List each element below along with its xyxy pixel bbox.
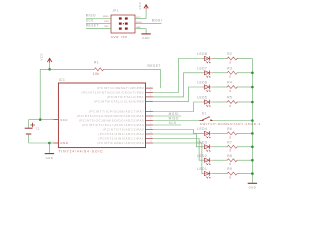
svg-text:LED3: LED3: [197, 140, 207, 144]
svg-text:MISO: MISO: [169, 117, 179, 121]
svg-text:(PCINT0/AREF/ADC0)PA0: (PCINT0/AREF/ADC0)PA0: [97, 141, 144, 145]
svg-text:R6: R6: [227, 127, 232, 131]
svg-text:LED8: LED8: [197, 52, 207, 56]
svg-text:VCC: VCC: [138, 1, 142, 9]
svg-text:R1: R1: [94, 60, 99, 64]
svg-text:R9: R9: [227, 167, 232, 171]
svg-text:MOSI: MOSI: [169, 112, 179, 116]
svg-text:MOSI: MOSI: [152, 19, 162, 23]
svg-text:VCC: VCC: [40, 52, 44, 60]
svg-text:0: 0: [229, 135, 231, 139]
svg-text:VCC: VCC: [60, 118, 68, 122]
svg-text:(PCINT11/RESET/dW)PB3: (PCINT11/RESET/dW)PB3: [97, 86, 144, 90]
svg-text:LED7: LED7: [197, 66, 207, 70]
svg-text:(PCINT10/INT0/OC0A/CKOUT)PB2: (PCINT10/INT0/OC0A/CKOUT)PB2: [81, 90, 144, 94]
svg-text:0: 0: [229, 89, 231, 93]
svg-text:IC1: IC1: [59, 78, 66, 82]
svg-text:R3: R3: [227, 66, 232, 70]
svg-text:LED5: LED5: [197, 96, 207, 100]
svg-text:SCK: SCK: [104, 21, 109, 23]
svg-text:RESET: RESET: [148, 64, 161, 68]
svg-text:0: 0: [229, 149, 231, 153]
svg-text:RST: RST: [104, 26, 109, 28]
svg-text:R2: R2: [227, 52, 232, 56]
svg-text:GND: GND: [46, 156, 54, 160]
svg-text:0: 0: [229, 176, 231, 180]
svg-text:10k: 10k: [93, 72, 100, 76]
svg-text:AVR ISP: AVR ISP: [111, 35, 128, 39]
svg-text:0: 0: [229, 75, 231, 79]
svg-text:SCK: SCK: [86, 19, 95, 23]
svg-text:(PCINT2/AIN1/ADC2)PA2: (PCINT2/AIN1/ADC2)PA2: [98, 132, 144, 136]
svg-text:(PCINT4/T1/SCL/USCK/ADC4)PA4: (PCINT4/T1/SCL/USCK/ADC4)PA4: [82, 123, 144, 127]
svg-text:R5: R5: [227, 96, 232, 100]
svg-text:C1: C1: [36, 127, 40, 131]
svg-text:MISO: MISO: [86, 14, 96, 18]
svg-text:(PCINT6/OC1A/SDA/MOSI/ADC6)PA6: (PCINT6/OC1A/SDA/MOSI/ADC6)PA6: [77, 114, 145, 118]
svg-text:(PCINT8/XTAL1/CLKIN)PB0: (PCINT8/XTAL1/CLKIN)PB0: [94, 99, 144, 103]
svg-text:GND: GND: [60, 141, 68, 145]
svg-text:(PCINT9/XTAL2)PB1: (PCINT9/XTAL2)PB1: [107, 95, 144, 99]
svg-text:0: 0: [229, 60, 231, 64]
svg-text:LED6: LED6: [197, 81, 207, 85]
svg-text:S1: S1: [202, 112, 207, 116]
svg-text:(PCINT5/OC1B/MISO/DO/ADC5)PA5: (PCINT5/OC1B/MISO/DO/ADC5)PA5: [79, 118, 144, 122]
svg-text:RESET: RESET: [86, 24, 99, 28]
svg-text:SWITCH-MOMENTARY-2SMD-2: SWITCH-MOMENTARY-2SMD-2: [200, 122, 261, 126]
svg-text:(PCINT3/T0/ADC3)PA3: (PCINT3/T0/ADC3)PA3: [103, 127, 145, 131]
svg-text:LED4: LED4: [197, 127, 207, 131]
svg-text:GND: GND: [249, 186, 257, 190]
svg-text:(PCINT7/ICP/OC0B/ADC7)PA7: (PCINT7/ICP/OC0B/ADC7)PA7: [89, 109, 144, 113]
svg-text:R4: R4: [227, 81, 232, 85]
svg-text:R7: R7: [227, 140, 232, 144]
svg-text:0: 0: [229, 104, 231, 108]
svg-text:(PCINT1/AIN0/ADC1)PA1: (PCINT1/AIN0/ADC1)PA1: [98, 136, 144, 140]
svg-text:R8: R8: [227, 154, 232, 158]
svg-text:SCK: SCK: [169, 121, 178, 125]
svg-text:LED2: LED2: [197, 154, 207, 158]
svg-text:TINY24/44/84-SOIC: TINY24/44/84-SOIC: [59, 149, 104, 153]
svg-text:JP1: JP1: [112, 8, 119, 12]
svg-text:LED1: LED1: [197, 167, 207, 171]
svg-text:GND: GND: [142, 36, 150, 40]
svg-text:0: 0: [229, 162, 231, 166]
svg-text:MISO: MISO: [103, 16, 109, 18]
